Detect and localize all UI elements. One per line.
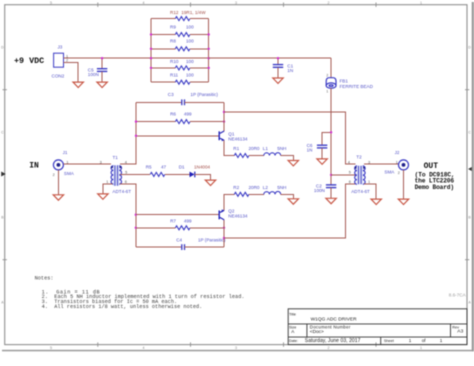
wire J1 shield to ground [57,170,59,194]
svg-text:R1: R1 [233,146,239,151]
svg-text:NE46134: NE46134 [228,137,248,142]
svg-text:1: 1 [420,1,422,5]
ground C1 [273,78,283,83]
wire +9V main rail [64,57,152,59]
svg-text:R8: R8 [170,39,176,44]
wire Q1 feedback right rail [223,102,225,131]
wire D1 to ground [194,174,210,179]
svg-text:Date:: Date: [289,339,298,343]
wire Q1 base [136,135,219,137]
ground R2 L2 [288,199,298,204]
wire Q2 base [136,214,219,216]
svg-text:5: 5 [50,1,52,5]
capacitor C6 [317,145,327,148]
capacitor C1 [277,58,279,64]
frame alignment arrow right [468,167,473,172]
svg-text:100: 100 [186,72,194,77]
wire J3 pin2 to ground [64,63,79,82]
capacitor C3 branch [136,101,182,103]
svg-text:L2: L2 [263,185,269,190]
svg-text:FB1: FB1 [340,78,349,83]
svg-text:Demo Board): Demo Board) [415,184,455,191]
svg-text:1P (Parasitic): 1P (Parasitic) [190,92,218,97]
svg-text:19R1, 1/4W: 19R1, 1/4W [181,10,206,15]
ferrite bead FB1 [326,78,336,89]
resistor R12 [151,18,175,20]
junction C6 tap [330,131,332,133]
svg-text:5: 5 [50,346,52,350]
svg-text:SMA: SMA [384,169,395,174]
svg-text:Document Number: Document Number [310,324,351,329]
svg-text:ADT4-6T: ADT4-6T [351,189,370,194]
ground C2 [326,198,336,203]
svg-text:4: 4 [143,346,145,350]
svg-text:R12: R12 [170,10,179,15]
resistor R11 [151,81,175,83]
wire T2 pin3 to J2 [364,163,399,165]
wire J1 to T1 pin3 [63,163,111,165]
svg-text:5: 5 [125,170,127,174]
junction R10 right [208,67,210,69]
polarity dot T2 left [355,167,357,169]
resistor R5 [150,172,165,176]
svg-text:J3: J3 [58,44,63,49]
wire Q2 base rail dots [135,214,137,216]
svg-text:4: 4 [348,160,350,164]
svg-text:1N: 1N [287,68,293,73]
wire Q2 emitter to R2 [224,194,234,210]
svg-text:1: 1 [440,338,443,343]
svg-text:1: 1 [409,338,412,343]
svg-text:499: 499 [184,219,192,224]
svg-text:47: 47 [161,164,167,169]
inductor L2 [264,191,281,194]
svg-text:Sheet: Sheet [384,339,395,343]
svg-text:1P (Parasitic): 1P (Parasitic) [198,238,226,243]
resistor R2 [234,192,249,196]
svg-text:R10: R10 [170,59,179,64]
wire T1 pin1 to ground [103,184,113,193]
svg-text:SMA: SMA [64,171,75,176]
svg-text:2: 2 [398,171,400,175]
transformer T2 [357,166,364,184]
svg-text:499: 499 [184,112,192,117]
svg-text:<Doc>: <Doc> [310,329,324,335]
svg-text:CON2: CON2 [52,73,65,78]
wire T1 pin4 up to Q1 base rail [120,102,136,164]
ground J3 [73,82,83,87]
junction T2 center tap [330,174,332,176]
wire T2 pin1 to ground [364,184,376,199]
junction C1 [277,57,279,59]
svg-text:Notes:: Notes: [35,276,54,282]
svg-text:J2: J2 [395,150,400,155]
svg-text:4. All resistors 1/8 watt, un: 4. All resistors 1/8 watt, unless otherw… [42,304,203,310]
svg-text:L1: L1 [263,146,269,151]
annotation To DC918C [415,171,455,191]
wire Q2 feedback right rail [223,220,225,247]
svg-text:2: 2 [326,74,328,78]
svg-text:R7: R7 [170,219,176,224]
svg-text:ADT4-6T: ADT4-6T [112,189,131,194]
svg-text:D: D [468,45,471,49]
svg-text:3: 3 [100,160,102,164]
svg-text:T2: T2 [356,154,362,159]
junction R6 left [135,120,137,122]
junction R10 left [150,67,152,69]
svg-text:C: C [1,130,4,134]
svg-text:6: 6 [125,180,127,184]
wire FB1 to C2 node [330,88,332,185]
svg-text:3: 3 [235,346,237,350]
svg-text:1: 1 [420,346,422,350]
svg-text:1: 1 [106,180,108,184]
wire bank to C1 to FB1 [209,57,331,59]
wire C6 tap [322,132,331,145]
polarity dot T2 right [363,167,365,169]
svg-text:20R0: 20R0 [249,146,260,151]
resistor R9 [151,34,175,36]
connector J2 [399,160,409,170]
svg-text:5: 5 [349,170,351,174]
junction R8 right [208,48,210,50]
svg-text:8.6-7CA: 8.6-7CA [449,293,467,298]
ground R1 L1 [288,161,298,166]
svg-text:IN: IN [29,162,39,171]
svg-text:100N: 100N [314,188,325,193]
ground C6 [317,159,327,164]
ground T2 [371,199,381,204]
svg-text:100: 100 [186,59,194,64]
svg-text:R5: R5 [146,164,152,169]
svg-text:Title: Title [289,313,296,317]
ground T1 [98,194,108,199]
resistor R7 [136,227,176,229]
junction bank feed left [150,57,152,59]
ground J2 [398,199,408,204]
svg-text:2: 2 [66,59,68,63]
wire T1 pin6 down to Q2 base rail [120,184,136,247]
title block content [291,316,463,344]
polarity dot T1 left [111,166,113,168]
svg-text:2: 2 [328,1,330,5]
capacitor C5 [101,58,103,68]
wire Q1 emitter to R1 [224,141,234,156]
resistor R8 [151,48,175,50]
frame alignment arrow left [1,172,6,177]
svg-text:2: 2 [53,173,55,177]
wire L1 to ground [281,156,294,161]
svg-text:1: 1 [396,160,398,164]
inductor L1 [264,153,281,156]
capacitor C2 [326,185,336,188]
svg-text:J1: J1 [63,150,68,155]
junction R8 left [150,48,152,50]
ground D1 [205,180,215,185]
wire Q2 output line to T2 pin6 [224,184,355,238]
transistor Q2 [219,209,225,220]
resistor bank rails [151,19,209,83]
svg-text:R11: R11 [170,72,179,77]
svg-text:FERRITE BEAD: FERRITE BEAD [340,84,374,89]
junction Q1 collector node [223,111,225,113]
wire L2 to ground [281,194,294,198]
svg-text:4: 4 [143,1,145,5]
ground J1 [53,195,63,200]
svg-text:1N: 1N [307,147,313,152]
resistor R1 [234,154,249,158]
svg-text:D: D [1,45,4,49]
svg-text:100N: 100N [88,72,99,77]
resistor R6 [136,121,175,123]
junction R9 right [208,33,210,35]
junction C5 [101,57,103,59]
wire FB1 supply drop [330,58,332,78]
svg-text:2: 2 [328,346,330,350]
title block frame [288,309,467,345]
ground C5 [97,82,107,87]
svg-text:20R0: 20R0 [249,185,260,190]
junction Q1 base rail [135,135,137,137]
wire T2 pin5 [331,174,355,176]
svg-text:1: 1 [326,90,328,94]
junction bank feed right [208,57,210,59]
svg-text:W1QG ADC DRIVER: W1QG ADC DRIVER [311,316,358,322]
svg-text:6: 6 [349,180,351,184]
svg-text:R9: R9 [170,24,176,29]
svg-text:T1: T1 [113,155,119,160]
svg-text:1N4004: 1N4004 [194,164,211,169]
wire T1 pin5 to R5 [120,173,150,175]
svg-text:+9 VDC: +9 VDC [14,56,44,66]
capacitor C4 branch [136,246,182,248]
svg-text:D1: D1 [179,164,185,169]
svg-text:5NH: 5NH [277,146,286,151]
wire J2 shield to ground [403,170,405,199]
polarity dot T1 right [120,166,122,168]
svg-text:R2: R2 [233,185,239,190]
junction R7 right [223,227,225,229]
svg-text:3: 3 [235,1,237,5]
svg-text:C: C [468,130,471,134]
connector J1 [53,160,63,170]
junction R9 left [150,33,152,35]
connector J3 [54,53,64,67]
svg-text:Saturday, June 03, 2017: Saturday, June 03, 2017 [305,338,361,344]
transformer T1 [113,165,120,186]
notes text [35,276,245,310]
svg-text:R6: R6 [170,112,176,117]
wire Q1 output line to T2 pin4 [224,112,355,164]
svg-text:100: 100 [186,39,194,44]
transistor Q1 [219,131,225,141]
diode D1 [190,172,195,178]
svg-text:OUT: OUT [424,162,439,171]
svg-text:C3: C3 [168,92,174,97]
svg-text:NE46134: NE46134 [228,214,248,219]
svg-text:C4: C4 [176,238,182,243]
page edge shadow [472,2,474,351]
svg-text:5NH: 5NH [277,185,286,190]
resistor R10 [151,67,175,69]
junction R6 right [223,120,225,122]
svg-text:100: 100 [186,24,194,29]
junction Q2 collector node [223,237,225,239]
svg-text:A3: A3 [457,328,463,334]
title block labels [289,313,459,343]
